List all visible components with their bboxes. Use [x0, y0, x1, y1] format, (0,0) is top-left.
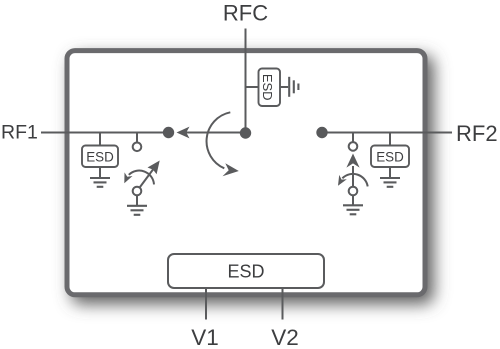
svg-text:ESD: ESD: [376, 150, 404, 165]
svg-text:ESD: ESD: [260, 74, 275, 101]
svg-text:ESD: ESD: [86, 150, 114, 165]
svg-text:RF1: RF1: [1, 122, 38, 144]
svg-text:ESD: ESD: [227, 262, 264, 282]
svg-text:RFC: RFC: [223, 1, 268, 26]
svg-text:RF2: RF2: [456, 121, 498, 146]
svg-text:V2: V2: [271, 325, 299, 349]
svg-text:V1: V1: [191, 325, 219, 349]
